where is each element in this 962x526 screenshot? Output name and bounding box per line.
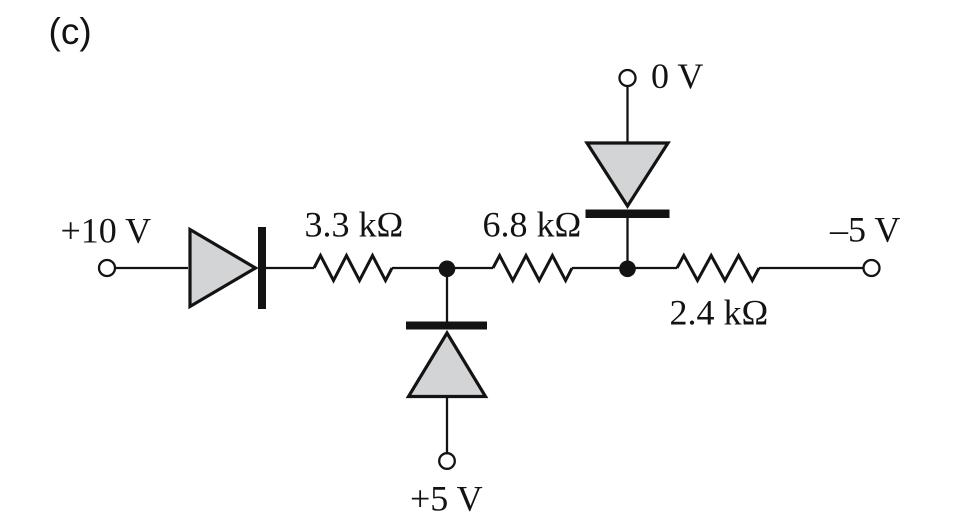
svg-text:6.8 kΩ: 6.8 kΩ — [483, 205, 582, 245]
resistor R3 2.4 kOhm — [677, 256, 759, 281]
wire R1 to node A — [392, 267, 493, 269]
diode D3 cathode bar — [406, 322, 487, 330]
terminal +10 V — [99, 260, 115, 276]
svg-text:2.4 kΩ: 2.4 kΩ — [670, 293, 769, 333]
diode D2 cathode bar — [586, 210, 670, 219]
svg-text:3.3 kΩ: 3.3 kΩ — [305, 205, 404, 245]
svg-text:0 V: 0 V — [651, 56, 703, 96]
wire node A to diode D3 — [446, 268, 448, 322]
wire left terminal to diode D1 — [116, 267, 189, 269]
terminal 0 V — [620, 70, 636, 86]
diode D3 triangle — [409, 333, 486, 397]
diode D1 cathode bar — [258, 227, 266, 309]
terminal -5 V — [864, 260, 880, 276]
wire D1 to R1 — [266, 267, 314, 269]
terminal +5 V — [439, 453, 455, 469]
wire R2 to node B — [572, 267, 677, 269]
wire D3 to +5V terminal — [446, 397, 448, 454]
diode D1 triangle — [190, 230, 256, 307]
svg-text:(c): (c) — [49, 11, 92, 52]
svg-text:+10 V: +10 V — [61, 211, 152, 251]
wire D2 to node B — [626, 218, 628, 268]
diode D2 triangle — [587, 143, 668, 206]
node A junction dot — [439, 261, 456, 278]
svg-text:–5 V: –5 V — [829, 210, 900, 250]
node B junction dot — [619, 261, 636, 278]
wire R3 to right terminal — [759, 267, 864, 269]
resistor R1 3.3 kOhm — [314, 256, 392, 281]
svg-text:+5 V: +5 V — [410, 479, 483, 519]
resistor R2 6.8 kOhm — [493, 256, 572, 281]
wire 0V terminal to diode D2 — [626, 87, 628, 144]
